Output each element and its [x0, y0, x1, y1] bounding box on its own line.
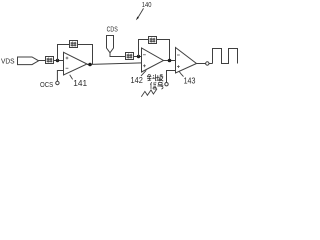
svg-text:140: 140	[142, 0, 152, 9]
wire feedback box to output node	[78, 45, 93, 65]
wire feedback riser from node C	[139, 40, 149, 57]
svg-text:142: 142	[131, 76, 143, 85]
output terminal circle	[206, 62, 209, 65]
char po	[157, 74, 164, 81]
svg-text:143: 143	[184, 77, 196, 86]
wire box2 to comparator 142 input	[134, 56, 142, 58]
label 141 leader	[70, 75, 73, 80]
wire CDS arrow to box 2	[110, 53, 126, 57]
label 143 leader	[179, 71, 184, 76]
CDS input signal arrow	[107, 36, 114, 53]
plus mark 143	[177, 65, 180, 68]
feedback box U2f	[149, 37, 157, 44]
wire box1 to comparator 141 input	[54, 60, 64, 62]
char xin	[150, 82, 156, 89]
wire 143 output	[197, 63, 206, 65]
wire feedback box to 142 output node	[157, 40, 170, 61]
plus mark 141	[66, 57, 69, 60]
char xie	[147, 74, 157, 81]
svg-text:141: 141	[73, 79, 87, 88]
wire feedback riser from node A	[58, 45, 70, 61]
ramp signal label (Chinese xie po)	[147, 74, 163, 89]
wire ramp to 143 inverting input	[167, 71, 176, 83]
op-amp comparator 142	[142, 48, 164, 72]
op-amp comparator 141	[64, 52, 88, 75]
node junction dot A	[56, 59, 59, 62]
wire OCS to 141 inverting input	[57, 71, 63, 82]
node junction dot C	[137, 55, 140, 58]
OCS terminal circle	[56, 81, 59, 84]
figure reference arrow	[138, 8, 143, 17]
node junction dot B	[88, 63, 92, 67]
sampling box 2	[126, 53, 134, 60]
wire VDS arrow to box 1	[39, 60, 46, 62]
minus mark 143	[177, 54, 180, 56]
char hao	[157, 82, 163, 89]
wire 142 output	[164, 60, 176, 62]
op-amp comparator 143	[176, 48, 197, 74]
svg-text:OCS: OCS	[40, 82, 53, 89]
wire to waveform	[209, 63, 213, 65]
wire 141 output bus	[87, 63, 142, 65]
node junction dot D	[168, 59, 172, 63]
output square waveform	[213, 49, 238, 64]
ramp waveform glyph	[141, 89, 157, 97]
label 142 leader	[141, 70, 146, 76]
VDS input signal arrow	[18, 57, 39, 65]
ramp terminal circle	[165, 83, 168, 86]
sampling box 1	[46, 57, 54, 64]
minus mark 141	[66, 67, 69, 69]
svg-text:VDS: VDS	[1, 59, 15, 66]
minus mark 142	[143, 54, 146, 56]
svg-text:CDS: CDS	[107, 26, 118, 33]
plus mark 142	[143, 64, 146, 67]
feedback box U1f	[70, 41, 78, 48]
